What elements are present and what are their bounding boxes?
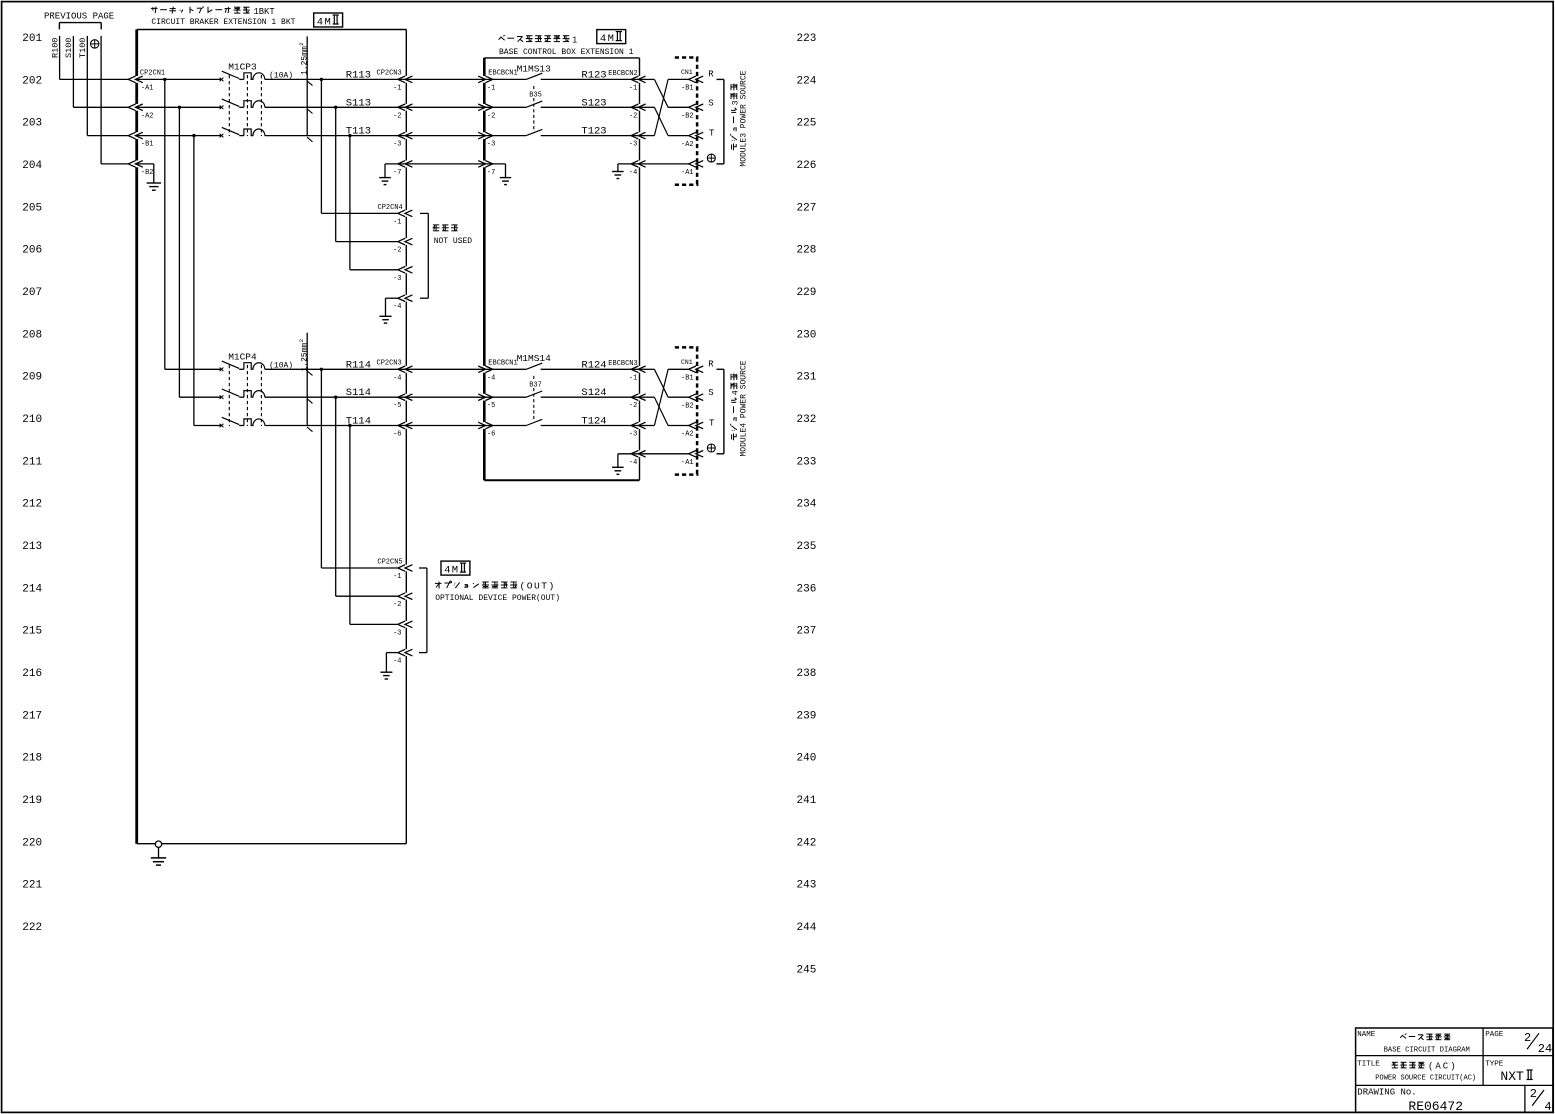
svg-text:1.25mm: 1.25mm bbox=[300, 342, 309, 371]
svg-text:-2: -2 bbox=[393, 112, 401, 120]
wire PE from previous page bbox=[100, 36, 102, 164]
connector CP2CN1 pin -A1 bbox=[128, 76, 135, 83]
svg-text:233: 233 bbox=[797, 456, 817, 468]
svg-text:202: 202 bbox=[22, 75, 42, 87]
svg-text:210: 210 bbox=[22, 414, 42, 426]
svg-text:MODULE4 POWER SOURCE: MODULE4 POWER SOURCE bbox=[740, 360, 749, 456]
svg-text:-4: -4 bbox=[487, 374, 495, 382]
svg-text:206: 206 bbox=[22, 245, 42, 257]
vertical taps to CP2CN5 bbox=[320, 369, 322, 568]
wire T113 bbox=[265, 135, 407, 137]
svg-text:CP2CN1: CP2CN1 bbox=[140, 70, 165, 78]
wire T114 between boxes bbox=[406, 425, 484, 427]
wire T113 between boxes bbox=[406, 135, 484, 137]
svg-text:-3: -3 bbox=[393, 141, 401, 149]
connector CP2CN1 pin -B2 bbox=[128, 161, 135, 168]
box1 circuit breaker extension 1 BKT title bbox=[151, 7, 158, 9]
bracket NOT USED bbox=[427, 213, 429, 298]
svg-text:222: 222 bbox=[22, 922, 42, 934]
svg-text:208: 208 bbox=[22, 329, 42, 341]
ground at EBCBCN1 -7 bbox=[484, 163, 505, 165]
svg-text:214: 214 bbox=[22, 583, 42, 595]
svg-text:-5: -5 bbox=[393, 402, 401, 410]
svg-text:223: 223 bbox=[797, 33, 817, 45]
svg-text:M1CP3: M1CP3 bbox=[228, 62, 257, 73]
svg-text:-7: -7 bbox=[487, 169, 495, 177]
svg-text:-1: -1 bbox=[393, 573, 401, 581]
wire S114 between boxes bbox=[406, 396, 484, 398]
connector CN1 pin -A2 bbox=[689, 132, 696, 139]
svg-text:R113: R113 bbox=[346, 69, 371, 81]
connector EBCBCN1 pin -4 bbox=[485, 366, 492, 373]
svg-text:R: R bbox=[708, 69, 714, 79]
wire EBCBCN2 -4 to CN1 -A1 bbox=[640, 163, 690, 165]
svg-text:-A2: -A2 bbox=[141, 112, 154, 120]
svg-text:-A1: -A1 bbox=[681, 169, 694, 177]
svg-text:243: 243 bbox=[797, 880, 817, 892]
box2 outline BASE CONTROL BOX EXTENSION 1 bbox=[484, 57, 639, 59]
connector CP2CN3 pin -2 group1 bbox=[398, 104, 405, 111]
svg-text:226: 226 bbox=[797, 160, 817, 172]
connector CP2CN4 pin -2 bbox=[398, 238, 405, 245]
svg-text:205: 205 bbox=[22, 202, 42, 214]
svg-text:-6: -6 bbox=[393, 431, 401, 439]
svg-text:S123: S123 bbox=[581, 97, 606, 109]
connector EBCBCN1 pin -6 bbox=[485, 422, 492, 429]
svg-text:-B2: -B2 bbox=[681, 113, 694, 121]
wire R100 from previous page bbox=[59, 36, 61, 80]
svg-text:CP2CN3: CP2CN3 bbox=[377, 70, 402, 78]
svg-text:-B1: -B1 bbox=[141, 141, 154, 149]
svg-text:227: 227 bbox=[797, 202, 817, 214]
svg-text:-7: -7 bbox=[393, 169, 401, 177]
svg-text:MODULE3 POWER SOURCE: MODULE3 POWER SOURCE bbox=[740, 70, 749, 166]
svg-text:EBCBCN1: EBCBCN1 bbox=[488, 70, 517, 78]
svg-text:-A1: -A1 bbox=[681, 459, 694, 467]
connector EBCBCN1 pin -2 bbox=[485, 104, 492, 111]
ground at EBCBCN3 -4 bbox=[618, 453, 640, 455]
CP2CN5 -4 stub and ground bbox=[386, 652, 398, 654]
box1 right edge / connectors CP2CN3 CP2CN4 CP2CN5 bbox=[405, 30, 407, 77]
connector CP2CN3 pin -3 group1 bbox=[398, 132, 405, 139]
svg-text:-2: -2 bbox=[393, 601, 401, 609]
svg-text:-1: -1 bbox=[393, 218, 401, 226]
wire S113 bbox=[265, 106, 407, 108]
svg-text:T100: T100 bbox=[78, 38, 88, 58]
label 未使用 NOT USED bbox=[433, 224, 439, 226]
svg-text:241: 241 bbox=[797, 795, 817, 807]
svg-text:230: 230 bbox=[797, 329, 817, 341]
svg-text:POWER SOURCE CIRCUIT(AC): POWER SOURCE CIRCUIT(AC) bbox=[1375, 1074, 1476, 1082]
svg-text:224: 224 bbox=[797, 75, 817, 87]
svg-text:2: 2 bbox=[298, 339, 305, 342]
cable marker 1.25mm2 group1 bbox=[306, 36, 308, 135]
connector CN1 dashed outline bbox=[675, 56, 699, 59]
svg-text:218: 218 bbox=[22, 753, 42, 765]
connector CP2CN4 pin -1 bbox=[398, 210, 405, 217]
wire EBCBCN3 -4 to CN1 -A1 group2 bbox=[640, 453, 690, 455]
svg-text:234: 234 bbox=[797, 499, 817, 511]
connector EBCBCN2 pin -1 bbox=[631, 76, 638, 83]
svg-text:240: 240 bbox=[797, 753, 817, 765]
svg-text:S113: S113 bbox=[346, 97, 371, 109]
tag 4MII box2 bbox=[597, 30, 626, 44]
svg-text:4: 4 bbox=[1544, 1100, 1551, 1114]
connector CN1 pin -A1 bbox=[689, 161, 696, 168]
svg-text:-B2: -B2 bbox=[681, 402, 694, 410]
module power bracket bbox=[723, 369, 725, 454]
connector CP2CN3 pin -7 group1 bbox=[398, 161, 405, 168]
connector EBCBCN2 pin -4 bbox=[631, 161, 638, 168]
cable marker 1.25mm2 group2 bbox=[306, 333, 308, 426]
label T100 (rotated) bbox=[78, 38, 88, 58]
svg-text:221: 221 bbox=[22, 880, 42, 892]
svg-text:-3: -3 bbox=[629, 431, 637, 439]
svg-text:-2: -2 bbox=[487, 112, 495, 120]
wire R113 between boxes bbox=[406, 78, 484, 80]
svg-text:CP2CN5: CP2CN5 bbox=[377, 559, 402, 567]
svg-text:CP2CN4: CP2CN4 bbox=[378, 204, 403, 212]
wire T100 from previous page bbox=[86, 36, 88, 136]
connector EBCBCN3 pin -1 bbox=[631, 366, 638, 373]
svg-text:203: 203 bbox=[22, 118, 42, 130]
circuit breaker M1CP3 bbox=[220, 78, 224, 82]
svg-text:2: 2 bbox=[1530, 1087, 1537, 1101]
connector CN1 pin -B2 bbox=[689, 104, 696, 111]
svg-text:CIRCUIT BRAKER EXTENSION 1 BKT: CIRCUIT BRAKER EXTENSION 1 BKT bbox=[151, 18, 295, 27]
svg-text:-A1: -A1 bbox=[141, 84, 154, 92]
box2 left edge / connector EBCBCN1 bbox=[483, 58, 486, 76]
svg-text:1: 1 bbox=[572, 35, 577, 45]
label MODULE4 POWER SOURCE (rotated) bbox=[740, 360, 749, 456]
svg-text:CN1: CN1 bbox=[681, 69, 693, 76]
label ベース回路図 bbox=[1400, 1035, 1406, 1038]
svg-text:2: 2 bbox=[1524, 1031, 1531, 1045]
switch M1MS14 bbox=[484, 368, 526, 370]
svg-text:-B1: -B1 bbox=[681, 375, 694, 383]
svg-text:24: 24 bbox=[1538, 1042, 1552, 1056]
svg-text:-2: -2 bbox=[629, 112, 637, 120]
svg-text:S100: S100 bbox=[64, 38, 74, 58]
svg-text:PREVIOUS PAGE: PREVIOUS PAGE bbox=[44, 11, 114, 21]
label R100 (rotated) bbox=[50, 38, 60, 58]
svg-text:B37: B37 bbox=[529, 382, 542, 390]
svg-text:-B1: -B1 bbox=[681, 85, 694, 93]
svg-text:BASE CIRCUIT DIAGRAM: BASE CIRCUIT DIAGRAM bbox=[1384, 1046, 1470, 1054]
svg-text:244: 244 bbox=[797, 922, 817, 934]
svg-text:239: 239 bbox=[797, 710, 817, 722]
connector CN1 pin -B1 bbox=[689, 76, 696, 83]
wire CP2CN1 to M1CP3 pole R bbox=[137, 78, 222, 80]
svg-text:216: 216 bbox=[22, 668, 42, 680]
label オプション装置電源(OUT) bbox=[435, 582, 442, 584]
svg-text:M1MS14: M1MS14 bbox=[517, 353, 552, 364]
svg-text:1BKT: 1BKT bbox=[254, 7, 275, 17]
svg-text:-4: -4 bbox=[393, 303, 401, 311]
svg-text:219: 219 bbox=[22, 795, 42, 807]
label S100 (rotated) bbox=[64, 38, 74, 58]
box2 title BASE CONTROL BOX EXTENSION 1 bbox=[499, 37, 505, 40]
svg-text:-1: -1 bbox=[629, 374, 637, 382]
svg-text:238: 238 bbox=[797, 668, 817, 680]
title block frame bbox=[1356, 1028, 1553, 1112]
svg-text:S124: S124 bbox=[581, 387, 606, 399]
svg-text:EBCBCN3: EBCBCN3 bbox=[608, 360, 637, 368]
svg-text:4M: 4M bbox=[600, 33, 615, 45]
svg-text:232: 232 bbox=[797, 414, 817, 426]
svg-text:B35: B35 bbox=[529, 92, 542, 100]
svg-text:TYPE: TYPE bbox=[1485, 1061, 1504, 1069]
crossover wires EBCBCN to CN1 bbox=[640, 78, 655, 80]
svg-text:-1: -1 bbox=[629, 84, 637, 92]
svg-text:235: 235 bbox=[797, 541, 817, 553]
connector CP2CN3 pin -5 group2 bbox=[398, 394, 405, 401]
svg-text:-3: -3 bbox=[487, 141, 495, 149]
svg-text:NOT USED: NOT USED bbox=[434, 237, 473, 246]
svg-text:T: T bbox=[709, 129, 715, 139]
connector EBCBCN1 pin -7 bbox=[485, 161, 492, 168]
vertical feeders to M1CP4 bbox=[164, 79, 166, 369]
connector EBCBCN2 pin -3 bbox=[631, 132, 638, 139]
svg-text:-2: -2 bbox=[629, 402, 637, 410]
svg-text:-4: -4 bbox=[629, 169, 637, 177]
svg-text:(OUT): (OUT) bbox=[520, 581, 556, 592]
connector CN1 pin -A2 bbox=[689, 422, 696, 429]
svg-text:-A2: -A2 bbox=[681, 141, 694, 149]
wire CP2CN1 to M1CP3 pole T bbox=[137, 135, 222, 137]
svg-text:DRAWING No.: DRAWING No. bbox=[1357, 1087, 1416, 1097]
label モジュール3電源 (rotated) bbox=[730, 84, 740, 151]
svg-text:R124: R124 bbox=[581, 359, 606, 371]
ground at EBCBCN2 -4 bbox=[618, 163, 640, 165]
svg-text:204: 204 bbox=[22, 160, 42, 172]
svg-text:T123: T123 bbox=[581, 126, 606, 138]
CP2CN4 -4 stub and ground bbox=[386, 297, 398, 299]
svg-text:T124: T124 bbox=[581, 416, 606, 428]
svg-text:-1: -1 bbox=[487, 84, 495, 92]
connector CP2CN1 pin -B1 bbox=[128, 132, 135, 139]
label MODULE3 POWER SOURCE (rotated) bbox=[740, 70, 749, 166]
svg-text:236: 236 bbox=[797, 583, 817, 595]
svg-text:4M: 4M bbox=[317, 16, 332, 28]
svg-text:R123: R123 bbox=[581, 69, 606, 81]
svg-text:231: 231 bbox=[797, 372, 817, 384]
box1 outline CIRCUIT BRAKER EXTENSION 1 BKT bbox=[137, 29, 407, 31]
wire S113 between boxes bbox=[406, 106, 484, 108]
connector EBCBCN2 pin -2 bbox=[631, 104, 638, 111]
junction dots on R113 S113 T113 bbox=[163, 78, 166, 81]
svg-text:R114: R114 bbox=[346, 359, 371, 371]
module power bracket bbox=[723, 79, 725, 163]
svg-text:225: 225 bbox=[797, 118, 817, 130]
svg-text:R100: R100 bbox=[50, 38, 60, 58]
connector CN1 pin -A1 bbox=[689, 451, 696, 458]
connector CP2CN3 pin -6 group2 bbox=[398, 422, 405, 429]
svg-text:EBCBCN2: EBCBCN2 bbox=[608, 70, 637, 78]
box1 bottom ground with circle bbox=[155, 841, 161, 847]
bracket optional device power bbox=[426, 568, 428, 653]
connector CP2CN4 pin -3 bbox=[398, 267, 405, 274]
box1 left edge / connector CP2CN1 bbox=[135, 30, 138, 77]
svg-text:-4: -4 bbox=[393, 374, 401, 382]
svg-text:228: 228 bbox=[797, 245, 817, 257]
label 1.25mm2 (rotated) group2 bbox=[298, 339, 310, 372]
wire R114 between boxes bbox=[406, 368, 484, 370]
svg-text:RE06472: RE06472 bbox=[1408, 1099, 1463, 1114]
svg-text:(AC): (AC) bbox=[1428, 1062, 1458, 1072]
connector CP2CN1 pin -A2 bbox=[128, 104, 135, 111]
svg-text:S: S bbox=[708, 98, 713, 108]
svg-text:NXT: NXT bbox=[1500, 1069, 1524, 1084]
label 動力回路(AC) bbox=[1392, 1061, 1398, 1063]
junction dots on R114 S114 T114 bbox=[320, 368, 323, 371]
svg-text:2: 2 bbox=[298, 42, 305, 45]
connector EBCBCN3 pin -4 bbox=[631, 451, 638, 458]
svg-text:-3: -3 bbox=[393, 275, 401, 283]
wire PE -7 between boxes bbox=[406, 163, 484, 165]
svg-text:NAME: NAME bbox=[1357, 1031, 1376, 1039]
svg-text:211: 211 bbox=[22, 456, 42, 468]
connector CP2CN5 pin -3 bbox=[398, 621, 405, 628]
previous-page bracket bbox=[59, 22, 101, 24]
connector CP2CN3 pin -4 group2 bbox=[398, 366, 405, 373]
svg-text:-A2: -A2 bbox=[681, 431, 694, 439]
svg-text:245: 245 bbox=[797, 964, 817, 976]
svg-text:207: 207 bbox=[22, 287, 42, 299]
svg-text:M1CP4: M1CP4 bbox=[228, 351, 257, 362]
svg-text:212: 212 bbox=[22, 499, 42, 511]
svg-text:S114: S114 bbox=[346, 387, 371, 399]
tag 4MII CP2CN5 bbox=[441, 561, 470, 575]
svg-text:OPTIONAL DEVICE POWER(OUT): OPTIONAL DEVICE POWER(OUT) bbox=[435, 594, 560, 603]
svg-text:BASE CONTROL BOX EXTENSION 1: BASE CONTROL BOX EXTENSION 1 bbox=[499, 48, 634, 57]
svg-text:TITLE: TITLE bbox=[1357, 1061, 1380, 1069]
PE symbol top-left bbox=[91, 40, 99, 48]
svg-text:-4: -4 bbox=[393, 658, 401, 666]
svg-text:-2: -2 bbox=[393, 247, 401, 255]
connector CP2CN5 pin -2 bbox=[398, 593, 405, 600]
svg-text:217: 217 bbox=[22, 710, 42, 722]
label モジュール4電源 (rotated) bbox=[730, 373, 740, 440]
svg-text:M1MS13: M1MS13 bbox=[517, 63, 552, 74]
svg-text:S: S bbox=[708, 388, 713, 398]
connector EBCBCN1 pin -1 bbox=[485, 76, 492, 83]
svg-text:215: 215 bbox=[22, 626, 42, 638]
box2 right edge / connectors EBCBCN2 EBCBCN3 bbox=[639, 58, 641, 76]
connector EBCBCN3 pin -2 bbox=[631, 394, 638, 401]
crossover wires EBCBCN to CN1 bbox=[640, 368, 655, 370]
svg-text:220: 220 bbox=[22, 837, 42, 849]
wire S100 from previous page bbox=[72, 36, 74, 107]
connector CN1 pin -B1 bbox=[689, 366, 696, 373]
wire R114 bbox=[265, 368, 407, 370]
connector CP2CN5 pin -1 bbox=[398, 565, 405, 572]
connector CN1 pin -B2 bbox=[689, 394, 696, 401]
ground at CP2CN1 -B2 bbox=[137, 163, 154, 165]
connector EBCBCN1 pin -3 bbox=[485, 132, 492, 139]
svg-text:-3: -3 bbox=[393, 629, 401, 637]
svg-text:-3: -3 bbox=[629, 141, 637, 149]
svg-text:-4: -4 bbox=[629, 459, 637, 467]
label 1.25mm2 (rotated) group1 bbox=[298, 42, 310, 75]
circuit breaker M1CP4 bbox=[220, 368, 224, 372]
svg-text:1.25mm: 1.25mm bbox=[300, 46, 309, 75]
vertical taps to CP2CN4 bbox=[320, 79, 322, 213]
svg-text:209: 209 bbox=[22, 372, 42, 384]
svg-text:-6: -6 bbox=[487, 431, 495, 439]
svg-text:R: R bbox=[708, 359, 714, 369]
connector CP2CN5 pin -4 bbox=[398, 649, 405, 656]
connector CP2CN4 pin -4 bbox=[398, 295, 405, 302]
switch M1MS13 bbox=[484, 78, 526, 80]
svg-text:201: 201 bbox=[22, 33, 42, 45]
svg-text:213: 213 bbox=[22, 541, 42, 553]
wire S114 bbox=[265, 396, 407, 398]
svg-text:PAGE: PAGE bbox=[1485, 1031, 1504, 1039]
wire CP2CN1 to M1CP3 pole S bbox=[137, 106, 222, 108]
svg-text:EBCBCN1: EBCBCN1 bbox=[488, 360, 517, 368]
svg-text:-1: -1 bbox=[393, 84, 401, 92]
tag 4MII box1 bbox=[314, 13, 343, 27]
svg-text:CN1: CN1 bbox=[681, 359, 693, 366]
wire T114 bbox=[265, 425, 407, 427]
svg-text:-5: -5 bbox=[487, 402, 495, 410]
svg-text:242: 242 bbox=[797, 837, 817, 849]
svg-text:229: 229 bbox=[797, 287, 817, 299]
svg-text:CP2CN3: CP2CN3 bbox=[377, 360, 402, 368]
svg-text:237: 237 bbox=[797, 626, 817, 638]
ground at CP2CN3 -7 bbox=[385, 163, 406, 165]
connector CP2CN3 pin -1 group1 bbox=[398, 76, 405, 83]
connector EBCBCN3 pin -3 bbox=[631, 422, 638, 429]
svg-text:-B2: -B2 bbox=[141, 169, 154, 177]
connector CN1 dashed outline bbox=[675, 346, 699, 349]
connector EBCBCN1 pin -5 bbox=[485, 394, 492, 401]
wire R113 bbox=[265, 78, 407, 80]
svg-text:T: T bbox=[709, 418, 715, 428]
svg-text:4M: 4M bbox=[444, 564, 459, 576]
